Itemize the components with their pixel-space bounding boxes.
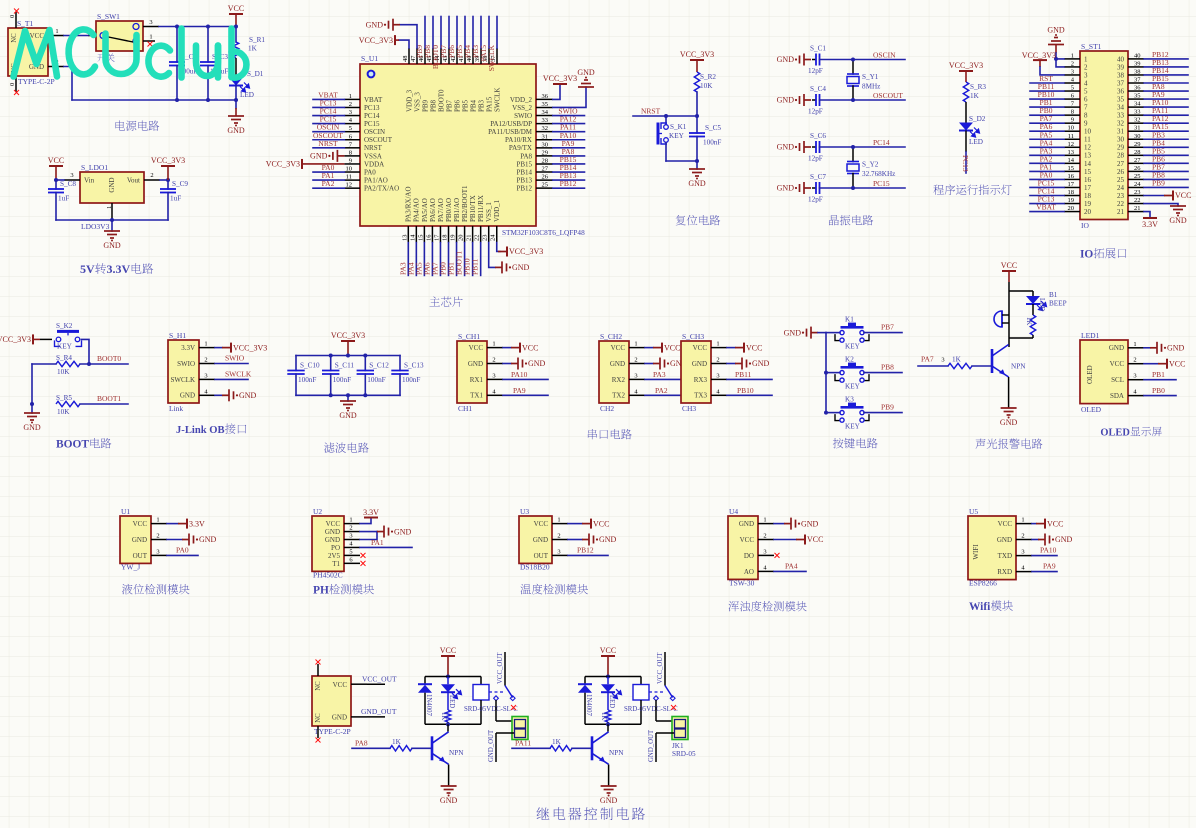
svg-text:3.3V: 3.3V — [106, 262, 130, 276]
svg-text:KEY: KEY — [845, 383, 861, 391]
capacitor S_C7 12pF — [812, 187, 816, 189]
svg-text:S_C13: S_C13 — [404, 362, 424, 370]
ground GND of CH1 — [503, 363, 511, 365]
wire and net label PB15 — [553, 163, 585, 165]
svg-text:3: 3 — [492, 372, 495, 379]
pin 12 of S_ST1 left — [1064, 146, 1080, 148]
wire and net label PA15 — [1144, 130, 1188, 132]
svg-text:GND: GND — [599, 535, 617, 544]
ground GND boot — [30, 402, 34, 406]
svg-text:3: 3 — [634, 372, 637, 379]
crystal S_Y1 8MHz — [852, 60, 854, 75]
svg-text:U1: U1 — [121, 507, 130, 516]
ground GND of power circuit — [228, 116, 244, 123]
power port VCC_3V3 at U1 pin48 VDD_3 — [399, 40, 409, 48]
svg-text:WIFI: WIFI — [972, 544, 980, 560]
svg-text:PA0: PA0 — [364, 168, 376, 176]
svg-text:GND: GND — [997, 536, 1012, 544]
wire and net label PA7 — [1030, 122, 1064, 124]
svg-text:1N4007: 1N4007 — [425, 694, 432, 717]
svg-text:CH3: CH3 — [682, 404, 696, 413]
pin 13 PA3/RX/AO of U1 — [407, 226, 409, 243]
svg-text:100nF: 100nF — [402, 376, 420, 384]
wire and net label PB0 — [1030, 114, 1064, 116]
svg-text:24: 24 — [490, 234, 497, 241]
svg-text:2: 2 — [349, 101, 352, 108]
svg-text:GND: GND — [468, 360, 483, 368]
svg-text:1: 1 — [1071, 52, 1074, 59]
pin 39 of S_ST1 right — [1128, 66, 1144, 68]
wire relay top rail — [425, 676, 481, 678]
svg-text:S_Y1: S_Y1 — [862, 73, 879, 81]
svg-text:11: 11 — [346, 174, 352, 181]
svg-text:1: 1 — [106, 206, 113, 209]
net label NRST and wire — [633, 115, 697, 117]
svg-text:100nF: 100nF — [367, 376, 385, 384]
svg-text:18: 18 — [442, 235, 449, 242]
svg-text:13: 13 — [1084, 152, 1092, 160]
svg-text:48: 48 — [402, 56, 409, 63]
pin 2 GND of U5 — [1016, 539, 1032, 541]
svg-text:3: 3 — [204, 372, 207, 379]
pin 29 PA8 of U1 — [536, 155, 553, 157]
ground GND of CH2 — [645, 363, 653, 365]
svg-text:1K: 1K — [970, 92, 980, 100]
key S_K2 boot button — [55, 340, 82, 346]
wire and net label PA0 — [313, 171, 344, 173]
pin 37 of S_ST1 right — [1128, 82, 1144, 84]
module U5 ESP8266 — [968, 516, 1016, 580]
svg-text:GND: GND — [528, 359, 546, 368]
svg-text:5: 5 — [1084, 87, 1088, 95]
wire and net label PA1 — [313, 179, 344, 181]
svg-text:PB4: PB4 — [469, 99, 477, 112]
svg-text:NPN: NPN — [1011, 363, 1026, 371]
caption chuankou-dianlu — [588, 429, 632, 439]
svg-text:BOOT1: BOOT1 — [97, 394, 121, 403]
svg-text:S_LDO1: S_LDO1 — [81, 163, 108, 172]
svg-text:GND: GND — [332, 714, 347, 722]
svg-text:38: 38 — [1134, 68, 1141, 75]
pin 24 of S_ST1 right — [1128, 186, 1144, 188]
wire and net label PB4 — [472, 17, 474, 49]
power port 3.3V U2 pin1 — [360, 519, 371, 524]
svg-text:1: 1 — [634, 341, 637, 348]
wire and net label BOOT1 — [464, 243, 466, 276]
svg-text:1K: 1K — [952, 356, 962, 364]
svg-text:32.768KHz: 32.768KHz — [862, 170, 895, 178]
ground GND reset — [696, 161, 698, 169]
svg-text:S_D1: S_D1 — [247, 70, 264, 78]
wire and net label PA3 — [1030, 154, 1064, 156]
svg-text:PO: PO — [331, 544, 340, 552]
svg-text:VDD_1: VDD_1 — [493, 199, 501, 222]
svg-text:23: 23 — [482, 235, 489, 242]
svg-text:28: 28 — [1134, 149, 1141, 156]
svg-text:GND: GND — [132, 536, 147, 544]
svg-text:36: 36 — [1134, 85, 1141, 92]
svg-text:OSCOUT: OSCOUT — [873, 91, 903, 100]
svg-text:12: 12 — [1084, 144, 1092, 152]
svg-text:1K: 1K — [552, 738, 562, 746]
svg-text:2: 2 — [557, 533, 560, 540]
wire and net label PB3 — [480, 17, 482, 49]
pin 34 of S_ST1 right — [1128, 106, 1144, 108]
pin 2 VCC of U4 — [758, 539, 774, 541]
svg-text:PC14: PC14 — [364, 112, 380, 120]
svg-text:2: 2 — [1084, 63, 1088, 71]
pin 5 OSCIN of U1 — [344, 131, 360, 133]
ground GND top of S_ST1 — [1048, 38, 1064, 45]
pin 22 of S_ST1 right — [1128, 203, 1144, 205]
svg-text:GND: GND — [227, 126, 245, 135]
svg-text:3: 3 — [156, 548, 159, 555]
label kaiguan under S_SW1 — [97, 54, 114, 62]
svg-text:S_CH3: S_CH3 — [682, 332, 704, 341]
capacitor S_C3 — [207, 27, 209, 63]
svg-text:S_C6: S_C6 — [810, 132, 826, 140]
wire and net label NRST — [313, 147, 344, 149]
relay switch and VCC_OUT — [649, 691, 663, 693]
wire and net label PA0 — [1030, 178, 1064, 180]
pin 38 PA15 of U1 — [488, 48, 490, 64]
pin 2 Vout of S_LDO1 — [144, 179, 160, 181]
wire and net label VBAT — [313, 98, 344, 100]
pin 40 PB4 of U1 — [472, 48, 474, 64]
svg-text:5: 5 — [349, 548, 352, 555]
wire to net OSCOUT — [820, 99, 906, 101]
svg-text:9: 9 — [349, 157, 352, 164]
pin 3 of S_SW1 — [143, 26, 159, 28]
svg-text:NPN: NPN — [609, 749, 624, 757]
pin 18 of S_ST1 left — [1064, 194, 1080, 196]
svg-text:25: 25 — [1117, 176, 1125, 184]
pin 11 PA1/AO of U1 — [344, 179, 360, 181]
wire and net label PC13 — [313, 106, 344, 108]
svg-text:SWIO: SWIO — [177, 360, 195, 368]
svg-text:U4: U4 — [729, 507, 738, 516]
svg-text:VCC: VCC — [30, 32, 45, 40]
power port 3.3V U1 pin1 — [167, 523, 178, 525]
power port VCC of CH3 — [727, 347, 735, 349]
svg-text:GND: GND — [1167, 344, 1185, 353]
svg-text:5: 5 — [1071, 85, 1074, 92]
pin 37 SWCLK of U1 — [496, 48, 498, 64]
svg-text:30: 30 — [1117, 136, 1125, 144]
svg-text:1: 1 — [1133, 341, 1136, 348]
LED of relay driver — [607, 677, 609, 685]
pin 4 TX3 of S_CH3 — [711, 394, 727, 396]
svg-text:Vout: Vout — [127, 177, 140, 185]
power port VCC U4 pin2 — [774, 539, 796, 541]
power port VCC_3V3 filter — [341, 340, 355, 342]
svg-text:GND: GND — [199, 535, 217, 544]
svg-text:Vin: Vin — [84, 177, 95, 185]
pin 1 VCC of U5 — [1016, 523, 1032, 525]
wire and net label PA1 — [360, 546, 412, 548]
wire and net label PA10 — [503, 378, 548, 380]
pin 17 of S_ST1 left — [1064, 186, 1080, 188]
svg-text:PB7: PB7 — [881, 323, 894, 332]
svg-text:34: 34 — [1134, 101, 1141, 108]
svg-text:VCC: VCC — [807, 535, 823, 544]
wire and net label PA11 — [1144, 114, 1188, 116]
relay coil SRD-05VDC-SL-C — [480, 677, 482, 685]
svg-text:PA11/USB/DM: PA11/USB/DM — [488, 128, 533, 136]
pin 0 no-connect top of S_T1 — [15, 12, 17, 28]
svg-text:10: 10 — [1068, 125, 1075, 132]
pin 24 VDD_1 of U1 — [496, 226, 498, 243]
module U1 YW_J — [120, 516, 151, 563]
no-connect top pin TYPE-C-2P — [317, 664, 319, 676]
wire resistor to LED — [235, 58, 237, 78]
svg-text:31: 31 — [1134, 125, 1141, 132]
crystal S_Y2 32.768KHz — [852, 147, 854, 162]
svg-text:VSS_3: VSS_3 — [413, 92, 421, 112]
pin 1 3.3V of S_H1 — [199, 347, 215, 349]
ground GND relay — [441, 786, 457, 793]
svg-text:22: 22 — [1117, 200, 1125, 208]
svg-text:26: 26 — [1134, 165, 1141, 172]
svg-text:PB9: PB9 — [881, 403, 894, 412]
svg-text:PH4502C: PH4502C — [313, 570, 343, 579]
pin 36 of S_ST1 right — [1128, 90, 1144, 92]
wire VCC top rail — [159, 26, 236, 28]
switch S_SW1 — [96, 21, 143, 51]
svg-text:PB1/AO: PB1/AO — [453, 198, 461, 222]
capacitor S_C1 12pF — [812, 59, 816, 61]
svg-text:BOOT0: BOOT0 — [97, 354, 121, 363]
svg-text:PB15: PB15 — [516, 160, 532, 168]
wire relay bottom rail — [585, 723, 641, 725]
wire and net label PA9 wifi — [1032, 571, 1057, 573]
svg-text:GND: GND — [688, 179, 706, 188]
svg-text:GND: GND — [600, 796, 618, 805]
svg-text:1K: 1K — [392, 738, 402, 746]
svg-text:PA7/AO: PA7/AO — [437, 198, 445, 222]
pin 42 PB6 of U1 — [456, 48, 458, 64]
wire and net label PB5 — [464, 17, 466, 49]
svg-text:GND_OUT: GND_OUT — [648, 729, 655, 762]
svg-text:IO: IO — [1081, 221, 1089, 230]
svg-text:GND: GND — [1047, 26, 1065, 35]
svg-text:18: 18 — [1068, 189, 1075, 196]
pin 6 T1 of U2 — [344, 562, 360, 564]
pin 3 RX3 of S_CH3 — [711, 378, 727, 380]
pin 4 SDA of LED1 — [1128, 395, 1144, 397]
wire and net label PB1 — [1144, 379, 1176, 381]
svg-text:LED: LED — [1038, 298, 1045, 311]
svg-text:VCC: VCC — [664, 343, 680, 352]
svg-text:KEY: KEY — [669, 132, 685, 140]
resistor 1K of alarm branch — [1032, 304, 1034, 315]
pin 9 of S_ST1 left — [1064, 122, 1080, 124]
resistor S_R2 10K — [694, 72, 699, 92]
wire and net label PB6 — [1144, 162, 1188, 164]
pin 17 PA7/AO of U1 — [439, 226, 441, 243]
pin 1 VCC of S_T1 — [48, 35, 64, 37]
svg-text:JK1: JK1 — [672, 742, 684, 750]
pin 4 GND of S_H1 — [199, 394, 215, 396]
svg-text:NC: NC — [11, 33, 18, 43]
svg-text:VCC: VCC — [326, 520, 341, 528]
pin 30 PA9/TX of U1 — [536, 147, 553, 149]
svg-text:GND: GND — [577, 68, 595, 77]
ground GND for S_C1 — [804, 59, 811, 61]
svg-text:PA4: PA4 — [785, 561, 798, 570]
wire to net PC15 — [820, 187, 906, 189]
svg-text:S_T1: S_T1 — [17, 19, 34, 28]
svg-text:PA2/TX/AO: PA2/TX/AO — [364, 185, 399, 193]
key K2 — [824, 371, 828, 375]
svg-text:VSS_2: VSS_2 — [512, 104, 532, 112]
svg-text:PA4/AO: PA4/AO — [413, 198, 421, 222]
svg-text:J-Link OB: J-Link OB — [176, 425, 225, 436]
svg-text:PB3: PB3 — [477, 99, 485, 112]
pin 1 of S_SW1 unused — [143, 40, 155, 42]
diode 1N4007 — [584, 677, 586, 685]
connector S_CH3 — [681, 341, 711, 403]
wire and net label PA9 — [553, 147, 585, 149]
svg-text:PB14: PB14 — [516, 168, 532, 176]
power port VCC_3V3 indicator — [959, 70, 973, 72]
pin 22 PB11/RX of U1 — [480, 226, 482, 243]
svg-text:3: 3 — [70, 172, 73, 179]
svg-text:GND: GND — [23, 423, 41, 432]
wire and net label PB4 — [1144, 146, 1188, 148]
wire and net label PA2 — [313, 187, 344, 189]
wire and net label PC15 — [1030, 186, 1064, 188]
wire and net label PA4 — [415, 243, 417, 276]
pin 23 of S_ST1 right — [1128, 194, 1144, 196]
wire and net label PB11 — [1030, 90, 1064, 92]
pin 32 of S_ST1 right — [1128, 122, 1144, 124]
power port VCC relay — [601, 655, 615, 657]
svg-text:17: 17 — [1084, 184, 1092, 192]
svg-text:VSSA: VSSA — [364, 152, 382, 160]
ground GND U2 pins 2-3 — [360, 531, 377, 533]
svg-text:9: 9 — [1084, 120, 1088, 128]
svg-text:34: 34 — [1117, 104, 1125, 112]
svg-text:VCC: VCC — [1175, 191, 1191, 200]
svg-text:LED: LED — [240, 91, 254, 99]
svg-text:S_R3: S_R3 — [970, 83, 986, 91]
pin 29 of S_ST1 right — [1128, 146, 1144, 148]
svg-text:LDO3V3: LDO3V3 — [81, 222, 110, 231]
pin 3 OUT of U1 — [151, 554, 167, 556]
wire and net label PA2 — [645, 394, 690, 396]
svg-text:VCC_3V3: VCC_3V3 — [543, 74, 577, 83]
svg-text:33: 33 — [1134, 109, 1141, 116]
svg-text:31: 31 — [542, 133, 549, 140]
svg-text:2: 2 — [1021, 533, 1024, 540]
svg-text:18: 18 — [1084, 192, 1092, 200]
power port VCC_3V3 at U1 pin9 VDDA — [302, 163, 344, 165]
pin 47 VSS_3 of U1 — [416, 48, 418, 64]
svg-text:32: 32 — [542, 125, 549, 132]
svg-text:21: 21 — [466, 235, 473, 242]
svg-text:VCC_OUT: VCC_OUT — [657, 652, 664, 684]
wire and net label PB3 — [1144, 138, 1188, 140]
wire LED to net PC13 — [965, 131, 967, 153]
svg-text:4: 4 — [1084, 79, 1088, 87]
svg-text:39: 39 — [1134, 60, 1141, 67]
mcu U1 STM32F103C8T6 body — [360, 64, 536, 226]
pin 8 VSSA of U1 — [344, 155, 360, 157]
svg-text:10K: 10K — [57, 368, 70, 376]
wire and net label PA1 — [1030, 170, 1064, 172]
svg-text:PB11/RX: PB11/RX — [477, 195, 485, 222]
svg-text:PB10/TX: PB10/TX — [469, 195, 477, 222]
svg-text:PB8: PB8 — [429, 99, 437, 112]
diode 1N4007 — [424, 677, 426, 685]
svg-text:1K: 1K — [440, 712, 447, 720]
capacitor S_C6 12pF — [812, 146, 816, 148]
svg-text:S_R5: S_R5 — [56, 394, 72, 402]
wire GND_OUT from terminal — [656, 732, 674, 734]
pin 4 TX1 of S_CH1 — [487, 394, 503, 396]
svg-text:2: 2 — [150, 172, 153, 179]
svg-text:12pF: 12pF — [808, 196, 823, 204]
svg-text:2V5: 2V5 — [328, 552, 341, 560]
svg-text:PB7: PB7 — [445, 99, 453, 112]
svg-text:VCC: VCC — [600, 646, 616, 655]
svg-text:GND: GND — [1109, 344, 1124, 352]
svg-text:VCC: VCC — [522, 343, 538, 352]
svg-text:GND: GND — [784, 328, 802, 337]
pin 27 PB14 of U1 — [536, 171, 553, 173]
pin 33 of S_ST1 right — [1128, 114, 1144, 116]
svg-text:NC: NC — [315, 681, 322, 691]
wire and net label PB12 — [568, 554, 608, 556]
ground GND at U1 pin47 VSS_3 — [400, 25, 417, 48]
svg-text:S_C4: S_C4 — [810, 85, 826, 93]
pin 4 PC15 of U1 — [344, 123, 360, 125]
svg-text:SCL: SCL — [1111, 376, 1124, 384]
wire and net label PB0 — [448, 243, 450, 276]
wire and net label PB9 — [1144, 186, 1188, 188]
svg-text:S_U1: S_U1 — [361, 54, 378, 63]
svg-text:3.3V: 3.3V — [1142, 220, 1158, 229]
svg-text:VCC_3V3: VCC_3V3 — [1022, 51, 1056, 60]
ground GND U5 pin2 — [1032, 539, 1038, 541]
LED of relay driver — [447, 677, 449, 685]
buzzer B1 BEEP — [994, 311, 1002, 327]
svg-text:YW_J: YW_J — [121, 562, 140, 571]
svg-text:11: 11 — [1068, 133, 1074, 140]
svg-text:30: 30 — [1134, 133, 1141, 140]
pin 3 OUT of U3 — [552, 554, 568, 556]
wire and net label PB8 — [432, 17, 434, 49]
module U3 DS18B20 — [519, 516, 552, 563]
svg-text:3.3V: 3.3V — [363, 508, 379, 517]
svg-text:13: 13 — [401, 235, 408, 242]
wire relay bottom rail — [425, 723, 481, 725]
svg-text:37: 37 — [1134, 77, 1141, 84]
svg-text:3: 3 — [349, 109, 352, 116]
power port 3.3V at S_ST1 pin21 — [1144, 212, 1150, 218]
pin 23 VSS_1 of U1 — [488, 226, 490, 243]
pin 3 RX2 of S_CH2 — [629, 378, 645, 380]
svg-text:PC13: PC13 — [961, 155, 970, 172]
power port VCC_3V3 at U1 pin36 VDD_2 — [553, 84, 560, 99]
ground GND for S_C6 — [804, 146, 811, 148]
svg-text:2: 2 — [204, 357, 207, 364]
pin 44 BOOT0 of U1 — [440, 48, 442, 64]
pin 18 PB0/AO of U1 — [448, 226, 450, 243]
svg-text:8: 8 — [1084, 112, 1088, 120]
caption hunzhuodu-jiance-mokuai — [728, 601, 806, 611]
